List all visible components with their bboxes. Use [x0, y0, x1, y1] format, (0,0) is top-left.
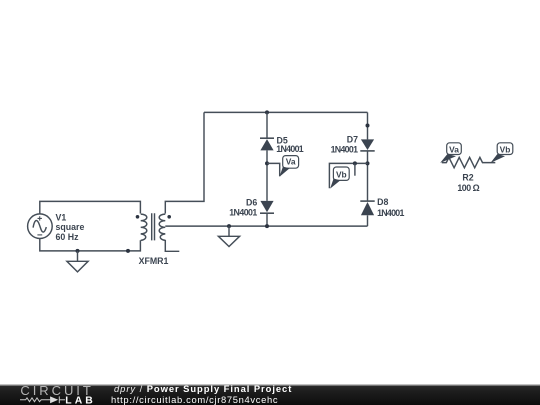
- wire: Va flag lead: [267, 163, 280, 176]
- label D7: [331, 135, 359, 155]
- wire: D5 to D6 segment (Va node): [266, 150, 268, 201]
- diode D7 (1N4001), cathode down: [360, 139, 374, 151]
- ground (left, under V1 loop): [67, 251, 88, 272]
- wire: secondary top lead up and over to top rail: [165, 112, 204, 213]
- label R2 value: [457, 172, 479, 193]
- wire: Vb flag lead: [329, 163, 367, 188]
- flag Va (bridge node): [280, 156, 299, 177]
- wire: V1 loop top (39.8,201.4)-(140.4,201.4): [40, 201, 141, 213]
- svg-text:Va: Va: [449, 144, 459, 154]
- wire: dangling stub at Vb lead: [354, 163, 356, 175]
- node: Va junction: [265, 161, 269, 165]
- diode D8 (1N4001), cathode up: [360, 201, 374, 215]
- svg-text:100 Ω: 100 Ω: [457, 183, 479, 193]
- label D6: [229, 197, 257, 217]
- svg-text:XFMR1: XFMR1: [139, 256, 169, 266]
- wire: D7 to D8 segment (Vb node): [367, 151, 369, 201]
- svg-text:1N4001: 1N4001: [276, 144, 303, 154]
- flag Vb (at R2 right terminal): [491, 143, 513, 163]
- svg-text:D8: D8: [377, 197, 388, 207]
- flag Va (at R2 left terminal): [440, 143, 461, 163]
- wire: top rail: [204, 111, 368, 113]
- core: [152, 213, 155, 240]
- svg-text:Vb: Vb: [500, 144, 511, 154]
- ground (center, under rail): [218, 226, 239, 246]
- wire: D8 to bottom rail corner: [367, 215, 369, 226]
- svg-text:1N4001: 1N4001: [331, 144, 358, 154]
- svg-text:D6: D6: [246, 197, 257, 207]
- secondary winding: [159, 214, 165, 240]
- footer bar: [0, 384, 540, 405]
- phase dot primary: [136, 215, 140, 219]
- svg-text:1N4001: 1N4001: [229, 208, 257, 218]
- resistor R2: [442, 157, 496, 167]
- flag Vb (bridge node): [330, 167, 349, 189]
- label D8: [377, 197, 404, 218]
- svg-text:Vb: Vb: [336, 169, 347, 179]
- wire: D6 to bottom rail: [266, 213, 268, 226]
- wire: V1 loop bottom: [40, 239, 141, 251]
- node: top rail / D5 branch junction: [265, 110, 269, 114]
- node: ground junction on center-tap rail: [227, 224, 231, 228]
- node: dot on D7 branch: [366, 124, 370, 128]
- svg-text:V1: V1: [56, 212, 67, 222]
- node: ground junction on V1 bottom wire: [76, 249, 80, 253]
- label D5: [276, 135, 303, 154]
- node: stub junction on Vb lead: [353, 161, 357, 165]
- wire: D7 branch from top rail corner: [367, 112, 369, 139]
- diode D5 (1N4001), cathode up: [260, 138, 274, 150]
- svg-text:60 Hz: 60 Hz: [56, 232, 80, 242]
- svg-text:Va: Va: [286, 157, 296, 167]
- transformer XFMR1: [136, 213, 171, 240]
- primary winding: [141, 214, 147, 240]
- node: D6 / rail junction: [265, 224, 269, 228]
- svg-text:LAB: LAB: [65, 396, 93, 405]
- node: junction dot on bottom wire: [126, 249, 130, 253]
- label V1 value: [56, 212, 85, 242]
- diode D6 (1N4001), cathode down: [260, 201, 274, 213]
- svg-text:1N4001: 1N4001: [377, 208, 404, 218]
- svg-text:D7: D7: [347, 135, 358, 145]
- svg-text:square: square: [56, 222, 85, 232]
- wire: D5 branch upper: [266, 112, 268, 138]
- phase dot secondary: [167, 215, 171, 219]
- voltage source V1: [28, 214, 53, 239]
- wire: center-tap bottom rail: [165, 225, 367, 227]
- node: Vb junction on branch: [366, 161, 370, 165]
- label XFMR1: [139, 256, 169, 266]
- wire: secondary bottom dangling stub: [165, 240, 179, 251]
- svg-text:R2: R2: [462, 172, 473, 182]
